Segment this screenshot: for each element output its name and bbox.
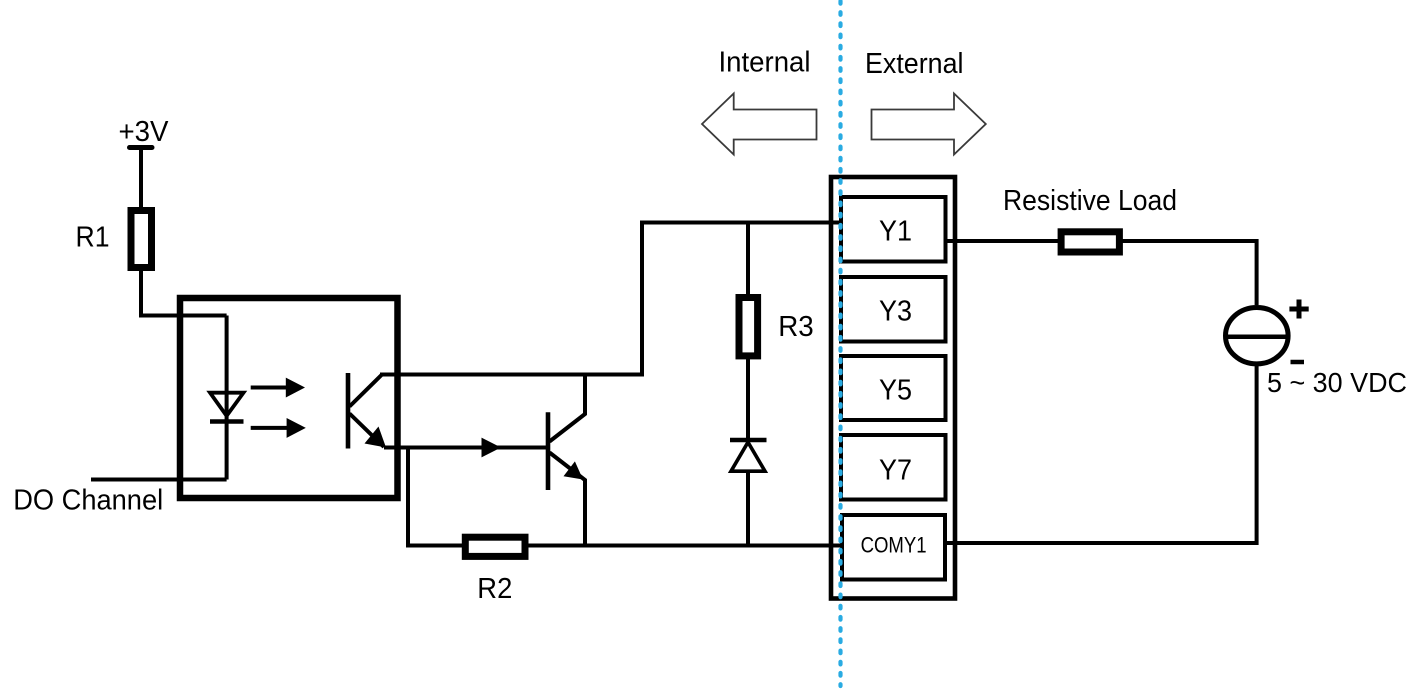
- terminal COMY1: [842, 515, 945, 580]
- wire +3V to R1: [139, 148, 143, 210]
- resistor R3: [739, 298, 758, 356]
- diode D1 triangle: [731, 442, 765, 471]
- wire Q1 collector rail: [380, 223, 843, 375]
- resistor R1: [131, 211, 152, 268]
- wire source to COMY1: [946, 365, 1257, 544]
- load resistor: [1061, 232, 1119, 252]
- Q2 collector diagonal: [550, 375, 586, 442]
- terminal Y1: [841, 197, 946, 262]
- wire diode to rail: [746, 472, 750, 547]
- wire load to source: [1121, 241, 1257, 305]
- svg-text:R3: R3: [778, 311, 814, 343]
- boundary dotted line: [838, 1, 842, 686]
- wire DO Channel to LED cathode: [91, 478, 227, 482]
- terminal Y7: [841, 435, 946, 500]
- terminal Y3: [841, 277, 946, 342]
- Q1 emitter diagonal: [350, 414, 385, 448]
- plus sign: [1289, 307, 1308, 312]
- svg-text:DO Channel: DO Channel: [13, 485, 163, 517]
- terminal block outer box: [831, 177, 955, 599]
- arrow internal (left): [702, 94, 817, 155]
- arrowhead into Q2 base: [482, 438, 502, 458]
- arrow external (right): [872, 94, 986, 155]
- svg-text:R1: R1: [76, 222, 110, 254]
- LED cathode bar: [210, 419, 244, 424]
- source V1 circle: [1226, 308, 1289, 364]
- svg-text:External: External: [865, 48, 964, 80]
- svg-text:Internal: Internal: [719, 47, 811, 79]
- source V1 chord: [1226, 335, 1290, 340]
- terminal Y5: [841, 356, 946, 420]
- wire R3 top: [746, 223, 750, 297]
- svg-text:5 ~ 30 VDC: 5 ~ 30 VDC: [1267, 367, 1407, 398]
- resistor R2: [465, 537, 525, 556]
- svg-text:Y7: Y7: [879, 454, 912, 486]
- svg-text:COMY1: COMY1: [861, 533, 927, 558]
- svg-text:Y1: Y1: [879, 215, 912, 247]
- svg-text:R2: R2: [477, 573, 512, 605]
- light arrow 2: [251, 426, 288, 430]
- Q2 emitter diagonal: [550, 453, 586, 548]
- wire bottom rail left of R2: [406, 544, 463, 548]
- wire Q1 emitter to Q2 base: [384, 446, 546, 450]
- svg-text:+3V: +3V: [119, 116, 170, 148]
- LED vertical wire: [225, 316, 229, 480]
- power rail bar +3V: [130, 145, 153, 150]
- wire Y1 to load: [946, 239, 1060, 243]
- wire bottom rail right of R2: [528, 544, 844, 548]
- wire emitter junction down to rail: [406, 448, 410, 548]
- Q2 emitter arrowhead: [564, 461, 584, 479]
- svg-text:Y5: Y5: [879, 375, 912, 407]
- wire R1 to LED anode: [141, 270, 227, 316]
- svg-text:Y3: Y3: [879, 295, 912, 327]
- diode D1 cathode bar: [730, 438, 767, 443]
- phototransistor Q1 base bar: [346, 373, 351, 449]
- Q1 collector diagonal: [350, 375, 383, 407]
- minus sign: [1291, 360, 1305, 365]
- svg-text:Resistive Load: Resistive Load: [1003, 185, 1177, 217]
- optocoupler U1 box: [180, 298, 398, 498]
- Q1 emitter arrowhead: [365, 427, 387, 448]
- wire R3 bottom to diode: [746, 356, 750, 441]
- transistor Q2 base bar: [546, 412, 551, 490]
- light arrow 1: [251, 386, 288, 390]
- LED triangle: [210, 393, 244, 416]
